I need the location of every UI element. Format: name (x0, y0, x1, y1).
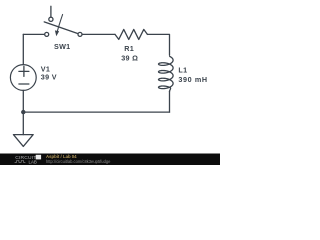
wire: junction to ground (22, 112, 24, 135)
V1 minus sign (19, 83, 29, 85)
svg-text:http://circuitlab.com/c8k3eup5: http://circuitlab.com/c8k3eup5fudge (46, 159, 111, 164)
svg-text:LAB: LAB (29, 159, 37, 164)
V1 plus sign (19, 66, 29, 76)
resistor R1 zigzag (115, 29, 147, 39)
wire: bottom rail (23, 111, 169, 113)
svg-text:39 Ω: 39 Ω (121, 53, 138, 62)
footer logo waveform (15, 161, 26, 163)
wire: L1 bottom to bottom-right corner (169, 91, 171, 112)
wire: R1 to top-right corner down to L1 (147, 34, 169, 55)
wire: switch right terminal to R1 (82, 33, 115, 35)
wire: V1 top to switch left terminal (23, 33, 44, 35)
svg-text:L1: L1 (178, 65, 187, 74)
wire: left rail V1 top up to switch level (22, 34, 24, 64)
switch SW1 terminal circle B (left) (45, 32, 49, 36)
switch SW1 action arrow arc (58, 15, 63, 31)
svg-text:R1: R1 (124, 44, 134, 53)
svg-text:390 mH: 390 mH (178, 75, 207, 84)
wire: switch top stub (50, 6, 52, 17)
switch SW1 terminal circle A (top) (49, 17, 53, 21)
voltage source V1 circle (10, 65, 36, 91)
wire: V1 bottom to junction (22, 90, 24, 112)
switch SW1 lever (44, 22, 78, 34)
svg-text:39 V: 39 V (41, 73, 57, 82)
inductor L1 coil (159, 56, 174, 91)
svg-text:SW1: SW1 (54, 42, 70, 51)
ground symbol triangle (13, 135, 33, 147)
footer logo white block (36, 155, 41, 160)
switch SW1 terminal circle C (right) (78, 32, 82, 36)
junction dot (21, 110, 25, 114)
switch arrowhead (55, 30, 59, 36)
footer bar (0, 154, 220, 166)
